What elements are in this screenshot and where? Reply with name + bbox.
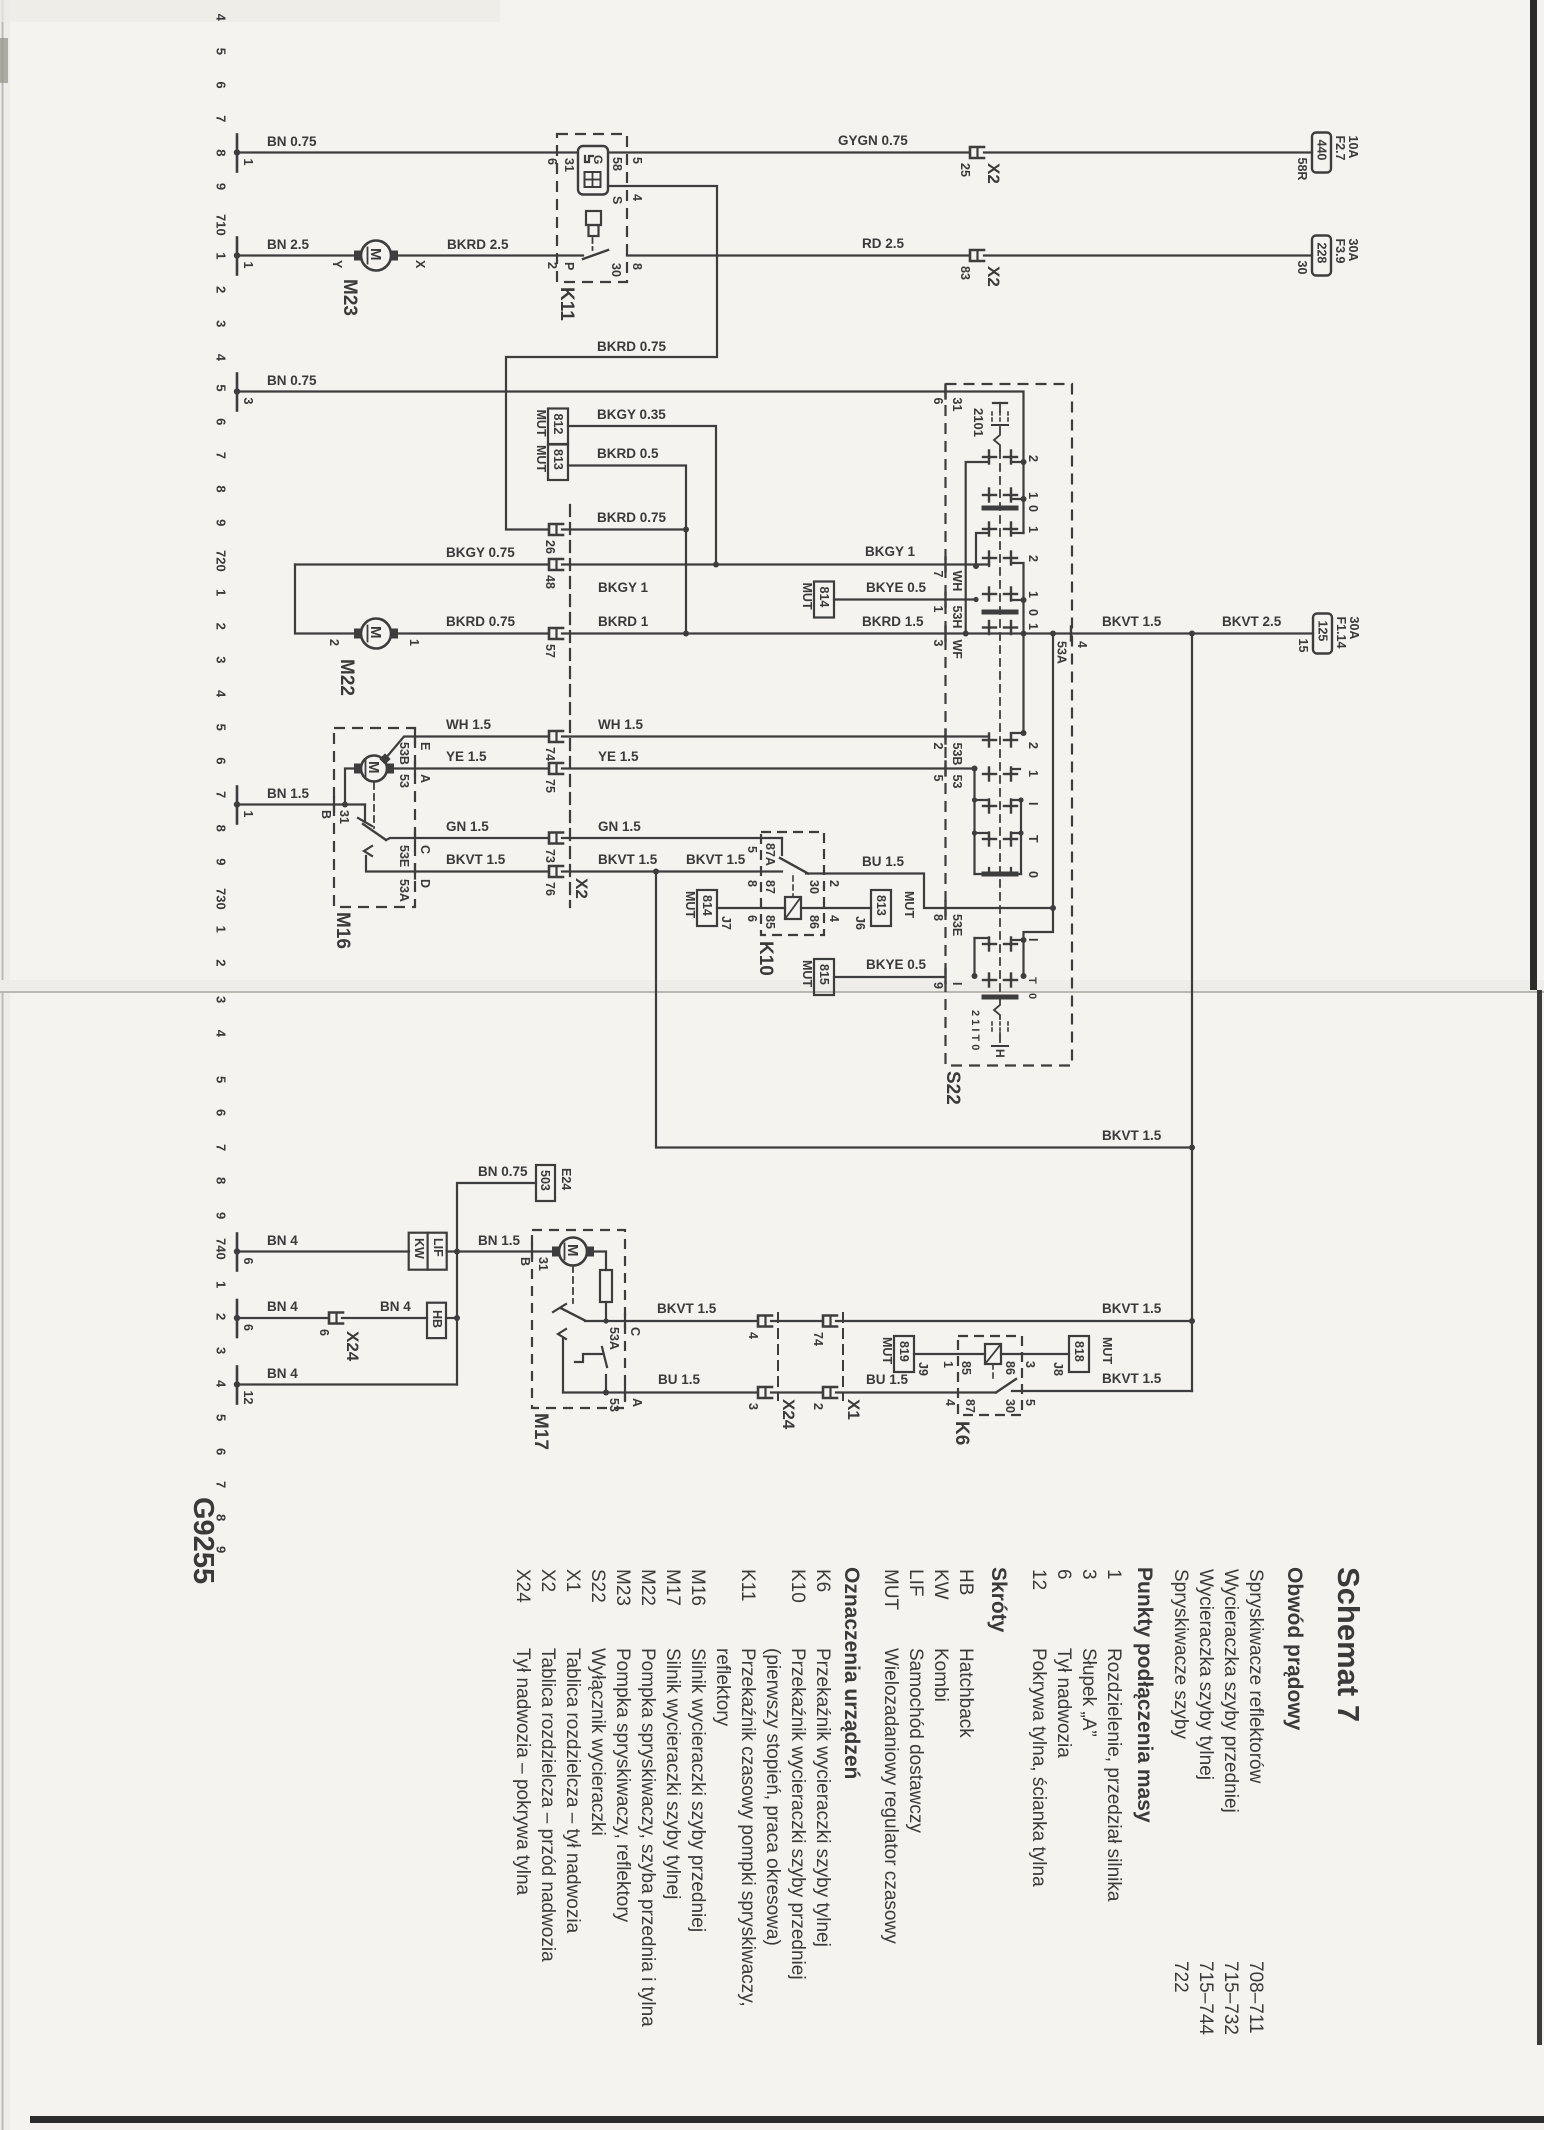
svg-text:31: 31 [337, 810, 351, 824]
wire BKVT 2.5 junction to fuse F1.14 [1192, 632, 1313, 634]
svg-text:1: 1 [407, 639, 421, 646]
connector X2 pin 83 [958, 250, 984, 280]
svg-text:8: 8 [214, 825, 229, 832]
svg-text:BKVT 1.5: BKVT 1.5 [1102, 1301, 1162, 1316]
svg-text:1: 1 [1103, 1569, 1124, 1580]
ground point 12 (track 744) [234, 1367, 255, 1405]
svg-text:S: S [610, 196, 624, 204]
svg-text:9: 9 [214, 858, 229, 865]
svg-text:X2: X2 [572, 878, 591, 899]
svg-text:K6: K6 [812, 1569, 833, 1592]
svg-text:G9255: G9255 [187, 1497, 219, 1584]
svg-text:C: C [418, 845, 432, 854]
svg-text:BKVT 1.5: BKVT 1.5 [1102, 1371, 1162, 1386]
wire GN 1.5 X2 pin 73 to K10 pin 87A [562, 837, 782, 839]
svg-text:0: 0 [1026, 993, 1038, 999]
svg-text:A: A [418, 774, 432, 783]
svg-text:813: 813 [874, 895, 888, 916]
svg-text:53: 53 [950, 775, 964, 789]
svg-text:GYGN 0.75: GYGN 0.75 [838, 133, 908, 148]
S22 top contact group [983, 456, 996, 458]
wire BN 0.75 (track 708) ground to K11 pin 31 [237, 151, 578, 153]
svg-text:2: 2 [827, 880, 841, 887]
wire BN 0.75 E24 to vertical x457 [457, 1183, 536, 1385]
svg-text:BKRD 2.5: BKRD 2.5 [447, 237, 509, 252]
S22 wash/intermittent icon top [993, 402, 1007, 404]
svg-text:M23: M23 [612, 1569, 633, 1606]
wiper motor M16 dashed enclosure [334, 728, 415, 907]
wiper motor M16 [354, 756, 394, 782]
svg-text:M17: M17 [662, 1569, 683, 1606]
svg-text:BN 0.75: BN 0.75 [478, 1164, 528, 1179]
svg-text:BU 1.5: BU 1.5 [866, 1372, 909, 1387]
svg-text:LIF: LIF [905, 1569, 926, 1596]
svg-text:0: 0 [1026, 609, 1040, 616]
svg-text:0: 0 [1026, 871, 1040, 878]
fuse F2.7 10A (440, 58R) [1295, 133, 1360, 181]
svg-text:reflektory: reflektory [712, 1648, 733, 1727]
svg-text:Słupek „A”: Słupek „A” [1078, 1648, 1099, 1737]
svg-text:M: M [367, 626, 384, 639]
wire BKVT 1.5 X24 pin 4 to X1 pin 74 [771, 1320, 822, 1322]
svg-text:BN 1.5: BN 1.5 [267, 786, 310, 801]
wire BN 2.5 ground to motor M23 [237, 254, 354, 256]
wire BKVT 1.5 X1 pin 74 to junction x1192 [836, 1320, 1192, 1322]
svg-text:1: 1 [214, 589, 229, 596]
svg-text:5: 5 [931, 775, 945, 782]
K11 switch arm [583, 250, 608, 259]
wire BN 4 ground to LIF/KW box [237, 1250, 409, 1252]
svg-text:1: 1 [241, 811, 255, 818]
svg-text:5: 5 [630, 157, 644, 164]
svg-text:F3.9: F3.9 [1333, 239, 1347, 264]
K6 switch arm [996, 1379, 1016, 1393]
connector X2 pin 73 [543, 833, 563, 863]
fuse F1.14 30A (125, 15) [1296, 614, 1361, 654]
pump motor M23 [354, 241, 398, 271]
svg-text:87A: 87A [763, 843, 777, 866]
connector X1 pin 2 [811, 1387, 837, 1410]
svg-text:6: 6 [214, 1109, 229, 1116]
svg-text:53A: 53A [397, 879, 411, 902]
connector X2 pin 57 [543, 628, 563, 658]
svg-text:X2: X2 [984, 163, 1003, 184]
svg-text:MUT: MUT [880, 1569, 901, 1611]
svg-text:M16: M16 [687, 1569, 708, 1606]
svg-text:BN 2.5: BN 2.5 [267, 237, 310, 252]
S22 interior row stubs [946, 563, 990, 565]
svg-text:7: 7 [214, 1481, 229, 1488]
svg-text:30A: 30A [1347, 617, 1361, 640]
svg-text:85: 85 [763, 915, 777, 929]
svg-text:B: B [518, 1257, 532, 1266]
svg-text:440: 440 [1315, 140, 1329, 161]
K11 timer element body [578, 146, 608, 195]
relay K11 dashed enclosure [557, 134, 627, 282]
svg-text:12: 12 [241, 1391, 255, 1405]
svg-text:Pompka spryskiwaczy, szyba prz: Pompka spryskiwaczy, szyba przednia i ty… [637, 1648, 658, 2027]
svg-text:814: 814 [700, 895, 714, 916]
svg-text:30: 30 [609, 263, 623, 277]
svg-text:BN 4: BN 4 [267, 1366, 298, 1381]
svg-text:X2: X2 [984, 266, 1003, 287]
wire BN 1.5 ground to M16 pin B/31 [237, 803, 365, 805]
wiper switch S22 dashed enclosure [946, 384, 1073, 1066]
wire GYGN 0.75 K11 pin 58/5 to X2 pin 25 [608, 151, 968, 153]
M16 pin E mark [414, 730, 416, 744]
svg-text:E: E [418, 742, 432, 750]
svg-text:53E: 53E [397, 845, 411, 867]
K10 coil [785, 897, 801, 919]
wire YE 1.5 M16 pin A to X2 pin 75 [389, 767, 548, 769]
svg-text:Tablica rozdzielcza – przód na: Tablica rozdzielcza – przód nadwozia [537, 1648, 558, 1962]
svg-text:57: 57 [543, 644, 557, 658]
wire YE 1.5 X2 pin 75 to S22 pin 53 [562, 767, 945, 769]
svg-text:BKVT 1.5: BKVT 1.5 [657, 1301, 717, 1316]
S22 pin 53H [944, 593, 946, 607]
svg-text:8: 8 [931, 914, 945, 921]
svg-text:4: 4 [746, 1332, 760, 1339]
svg-text:715–732: 715–732 [1220, 1961, 1241, 2035]
wire GN 1.5 M16 pin C to X2 pin 73 [386, 838, 548, 840]
MUT connector 815 [800, 959, 834, 995]
svg-text:2: 2 [1026, 555, 1040, 562]
svg-text:Przekaźnik wycieraczki szyby t: Przekaźnik wycieraczki szyby tylnej [812, 1648, 833, 1947]
relay K6 dashed enclosure [958, 1336, 1022, 1415]
terminal E24/503 [536, 1165, 555, 1201]
svg-text:Wycieraczka szyby przedniej: Wycieraczka szyby przedniej [1220, 1569, 1241, 1813]
svg-text:J6: J6 [853, 916, 867, 930]
ground point 1 (track 727) [234, 787, 255, 824]
connector X24 pin 4 [746, 1316, 772, 1340]
svg-text:B: B [319, 810, 333, 819]
svg-text:58: 58 [610, 157, 624, 171]
svg-text:740: 740 [214, 1238, 229, 1260]
X24 dashed bracket [777, 1313, 779, 1400]
svg-text:BN 4: BN 4 [267, 1233, 298, 1248]
svg-text:J7: J7 [719, 916, 733, 930]
svg-text:X24: X24 [779, 1399, 798, 1430]
variant box LIF/KW [409, 1233, 447, 1270]
M17 right lead to resistor [592, 1252, 606, 1271]
svg-text:48: 48 [543, 575, 557, 589]
svg-text:53E: 53E [950, 914, 964, 936]
K10 coil wires to MUT 814/813 [717, 907, 785, 909]
connector X2 pin 48 [543, 559, 563, 589]
svg-text:2: 2 [545, 262, 559, 269]
svg-text:2 1 I T 0: 2 1 I T 0 [969, 1010, 981, 1050]
wire BN 4 ground (track 744) to vertical x457 [237, 1383, 457, 1385]
svg-text:BKVT 1.5: BKVT 1.5 [446, 852, 506, 867]
right scan edge dark line (top half) [1530, 0, 1537, 990]
svg-text:125: 125 [1316, 621, 1330, 642]
wire GYGN 0.75 X2 pin 25 to fuse F2.7 [984, 151, 1312, 153]
svg-text:7: 7 [214, 115, 229, 122]
M22 loop wire: BKGY 0.75 row to motor [295, 563, 548, 565]
svg-text:30: 30 [1295, 261, 1309, 275]
svg-text:720: 720 [214, 550, 229, 572]
svg-text:MUT: MUT [902, 891, 916, 918]
K10 switch arm [780, 858, 808, 874]
svg-text:30: 30 [1003, 1399, 1017, 1413]
svg-text:HB: HB [955, 1569, 976, 1595]
svg-text:X2: X2 [537, 1569, 558, 1592]
wire WH 1.5 X2 pin 74 to S22 pin 53B [562, 735, 945, 737]
svg-text:7: 7 [214, 452, 229, 459]
svg-text:3: 3 [214, 996, 229, 1003]
svg-text:I: I [1026, 802, 1040, 805]
wire BN 0.75 (track 715) ground to S22 pin 31 [237, 390, 945, 392]
wire BKRD 2.5 M23 to K11 pin P/2 [398, 254, 583, 256]
svg-text:5: 5 [1023, 1399, 1037, 1406]
svg-text:X: X [413, 260, 427, 269]
svg-text:(pierwszy stopień, praca okres: (pierwszy stopień, praca okresowa) [762, 1648, 783, 1946]
left page edge line [2, 0, 4, 2130]
relay K10 dashed enclosure [761, 832, 824, 935]
svg-text:M16: M16 [332, 912, 353, 949]
svg-text:A: A [630, 1398, 644, 1407]
S22 bottom wash icon + 2 1 I T 0 labels [994, 999, 1000, 1019]
K6 linkage dashed [992, 1364, 994, 1380]
svg-text:WH 1.5: WH 1.5 [446, 717, 492, 732]
svg-text:K10: K10 [787, 1569, 808, 1603]
svg-text:BN 1.5: BN 1.5 [478, 1233, 521, 1248]
svg-text:WF: WF [950, 640, 964, 660]
svg-text:6: 6 [214, 418, 229, 425]
margin track numbers [214, 14, 229, 1554]
ground point 3 (track 715) [234, 374, 255, 411]
svg-text:5: 5 [214, 1076, 229, 1083]
svg-text:Spryskiwacze reflektorów: Spryskiwacze reflektorów [1245, 1569, 1266, 1784]
svg-text:BKYE 0.5: BKYE 0.5 [866, 957, 927, 972]
svg-text:1: 1 [931, 606, 945, 613]
svg-text:73: 73 [543, 849, 557, 863]
svg-text:0: 0 [1026, 505, 1040, 512]
wire RD 2.5 K11 pin 30 to X2 pin 83 [627, 254, 968, 256]
svg-text:F2.7: F2.7 [1333, 136, 1347, 161]
MUT connector 813 (J6) [853, 890, 916, 930]
svg-text:715–744: 715–744 [1195, 1961, 1216, 2035]
svg-text:10A: 10A [1346, 136, 1360, 159]
S22 pin 53E [944, 901, 946, 915]
K11 plunger / actuator [586, 211, 601, 225]
K11 crossed-box icon [585, 172, 601, 187]
svg-text:S22: S22 [587, 1569, 608, 1603]
svg-text:T: T [1026, 835, 1040, 843]
svg-text:8: 8 [630, 263, 644, 270]
connector X24 pin 3 [746, 1387, 772, 1410]
svg-text:Punkty podłączenia masy: Punkty podłączenia masy [1133, 1567, 1156, 1823]
S22 pin 53 [944, 762, 946, 776]
svg-text:1: 1 [214, 1281, 229, 1288]
svg-text:J8: J8 [1051, 1362, 1065, 1376]
bottom scan edge dark line [30, 2116, 1544, 2123]
svg-text:53H: 53H [950, 606, 964, 629]
wire BKVT 1.5 M17 pin C (53A) to X24 pin 4 [585, 1320, 757, 1322]
svg-text:MUT: MUT [534, 445, 548, 472]
svg-text:Spryskiwacze szyby: Spryskiwacze szyby [1170, 1569, 1191, 1739]
svg-text:S22: S22 [942, 1071, 963, 1105]
M17 lower contact + park contact symbol [558, 1329, 566, 1339]
svg-text:K11: K11 [737, 1569, 758, 1601]
svg-text:1: 1 [1026, 770, 1040, 777]
svg-text:KW: KW [930, 1569, 951, 1600]
svg-text:M: M [365, 761, 382, 774]
svg-text:2101: 2101 [971, 408, 986, 437]
svg-text:Tył nadwozia: Tył nadwozia [1053, 1648, 1074, 1758]
svg-text:Wycieraczka szyby tylnej: Wycieraczka szyby tylnej [1195, 1569, 1216, 1780]
svg-text:BKRD 0.75: BKRD 0.75 [446, 614, 516, 629]
M17 park switch arm [561, 1308, 586, 1321]
wire HB box to vertical x457 [446, 1317, 457, 1319]
svg-text:WH 1.5: WH 1.5 [598, 717, 644, 732]
wire WH 1.5 M16 pin E to X2 pin 74 [415, 735, 548, 737]
svg-text:4: 4 [214, 14, 229, 22]
svg-text:M22: M22 [637, 1569, 658, 1606]
svg-text:YE 1.5: YE 1.5 [598, 749, 639, 764]
S22 bottom contact group [983, 943, 996, 945]
wire BKVT 1.5 S22 pin 53A to junction x1192 [1071, 632, 1192, 634]
svg-text:Wielozadaniowy regulator czaso: Wielozadaniowy regulator czasowy [880, 1648, 901, 1944]
svg-text:MUT: MUT [1100, 1337, 1114, 1364]
M17 park cam symbol [575, 1354, 602, 1362]
svg-text:M17: M17 [530, 1413, 551, 1450]
svg-text:Y: Y [330, 260, 344, 269]
wire BN 4 X24 to HB box [342, 1317, 427, 1319]
svg-text:3: 3 [1078, 1569, 1099, 1580]
svg-text:BKGY 1: BKGY 1 [598, 580, 649, 595]
svg-text:BKRD 0.75: BKRD 0.75 [597, 339, 667, 354]
wire BKRD 0.75 M22 to X2 pin 57 [398, 632, 548, 634]
svg-text:Rozdzielenie, przedział silnik: Rozdzielenie, przedział silnika [1103, 1648, 1124, 1902]
svg-text:E24: E24 [559, 1168, 573, 1190]
svg-text:6: 6 [931, 398, 945, 405]
junction BKRD at x686 [683, 631, 689, 637]
svg-text:I: I [1026, 938, 1040, 941]
svg-text:74: 74 [811, 1332, 825, 1346]
svg-text:Oznaczenia urządzeń: Oznaczenia urządzeń [840, 1567, 863, 1779]
svg-text:6: 6 [214, 1448, 229, 1455]
svg-text:WH: WH [950, 571, 964, 592]
svg-text:Schemat 7: Schemat 7 [1331, 1567, 1366, 1722]
svg-text:MUT: MUT [800, 960, 814, 987]
K10 GN feed bend to arm top contact [781, 838, 783, 855]
M16 motor linkage dashed [373, 783, 375, 828]
wire BKRD 0.75: K11 pin S via x717 down, left at y357, down x506 to X2 pin 26 [506, 186, 717, 530]
svg-text:12: 12 [1028, 1569, 1049, 1590]
svg-text:7: 7 [214, 791, 229, 798]
svg-text:1: 1 [1026, 526, 1040, 533]
svg-text:2: 2 [214, 959, 229, 966]
wire BU 1.5 X24 pin 3 to X1 pin 2 [771, 1391, 822, 1393]
svg-text:818: 818 [1072, 1341, 1086, 1362]
MUT connector 813 [534, 444, 568, 480]
wire BKYE 0.5 MUT 814 to S22 pin 53H [834, 598, 945, 600]
svg-text:31: 31 [950, 398, 964, 412]
svg-text:BKVT 1.5: BKVT 1.5 [598, 852, 658, 867]
svg-text:86: 86 [807, 915, 821, 929]
svg-text:BKRD 1: BKRD 1 [598, 614, 649, 629]
MUT connector 819 (J9) [880, 1336, 930, 1376]
S22 pin 53A/4 right edge [1070, 627, 1072, 641]
svg-text:87: 87 [763, 880, 777, 894]
svg-text:Obwód prądowy: Obwód prądowy [1283, 1567, 1306, 1731]
connector X2 pin 76 [543, 866, 563, 896]
connector X2 pin 26 [543, 524, 563, 554]
connector X24 pin 6 [317, 1313, 343, 1337]
wire BN 1.5 LIF/KW to M17 pin B/31 [447, 1250, 553, 1252]
wiper motor M17 [552, 1238, 594, 1266]
svg-text:1: 1 [214, 252, 229, 259]
svg-text:812: 812 [551, 414, 565, 435]
ground point 1 (track 708) [234, 135, 255, 172]
svg-text:76: 76 [543, 882, 557, 896]
svg-text:Silnik wycieraczki szyby tylne: Silnik wycieraczki szyby tylnej [662, 1648, 683, 1899]
M22 left leg [295, 565, 354, 634]
svg-text:M: M [564, 1244, 581, 1257]
wire BKVT vertical x1192 fuse row down to K6 rows [1191, 634, 1193, 1392]
svg-text:BKYE 0.5: BKYE 0.5 [866, 580, 927, 595]
svg-text:GN 1.5: GN 1.5 [446, 819, 489, 834]
svg-text:5: 5 [214, 384, 229, 391]
svg-text:8: 8 [214, 485, 229, 492]
svg-text:X1: X1 [844, 1399, 863, 1420]
svg-text:5: 5 [214, 48, 229, 55]
svg-text:Hatchback: Hatchback [955, 1648, 976, 1738]
fold crease across page [0, 980, 1544, 992]
svg-text:53: 53 [607, 1398, 621, 1412]
svg-text:P: P [562, 262, 576, 270]
K6 coil wires [914, 1353, 985, 1355]
S22 pin I [944, 969, 946, 983]
svg-text:4: 4 [943, 1399, 957, 1406]
svg-text:3: 3 [214, 1347, 229, 1354]
svg-text:85: 85 [959, 1361, 973, 1375]
svg-text:31: 31 [536, 1257, 550, 1271]
svg-text:Pokrywa tylna, ścianka tylna: Pokrywa tylna, ścianka tylna [1028, 1648, 1049, 1887]
svg-text:X24: X24 [343, 1331, 362, 1362]
svg-text:6: 6 [545, 158, 559, 165]
svg-text:1: 1 [1026, 492, 1040, 499]
M16 E lead diagonal to WH row [385, 737, 415, 760]
svg-text:9: 9 [214, 183, 229, 190]
svg-text:BKVT 1.5: BKVT 1.5 [1102, 614, 1162, 629]
K6 coil [985, 1344, 1001, 1364]
svg-text:F1.14: F1.14 [1334, 617, 1348, 649]
svg-text:8: 8 [214, 1177, 229, 1184]
svg-text:Silnik wycieraczki szyby przed: Silnik wycieraczki szyby przedniej [687, 1648, 708, 1932]
svg-text:2: 2 [1026, 455, 1040, 462]
wire BU 1.5 K10 pin 30 to S22 pin 53E [806, 874, 946, 909]
right scan edge dark line (bottom half) [1537, 990, 1542, 2045]
svg-text:BKRD 1.5: BKRD 1.5 [862, 614, 924, 629]
svg-text:83: 83 [958, 266, 972, 280]
svg-text:X24: X24 [512, 1569, 533, 1603]
M16 park switch arm [364, 805, 366, 823]
connector X1 pin 74 [811, 1316, 837, 1346]
svg-text:Tablica rozdzielcza – tył nadw: Tablica rozdzielcza – tył nadwozia [562, 1648, 583, 1934]
wire BU 1.5 X1 pin 2 to K6 pin 87 [836, 1391, 996, 1393]
svg-text:2: 2 [214, 286, 229, 293]
svg-text:228: 228 [1315, 243, 1329, 264]
M16 D leg down to BKVT row [366, 856, 415, 872]
svg-text:3: 3 [214, 656, 229, 663]
svg-text:BKGY 1: BKGY 1 [865, 544, 916, 559]
M17 resistor [600, 1270, 612, 1302]
svg-text:30A: 30A [1346, 239, 1360, 262]
svg-text:31: 31 [562, 158, 576, 172]
svg-text:BN 0.75: BN 0.75 [267, 134, 317, 149]
